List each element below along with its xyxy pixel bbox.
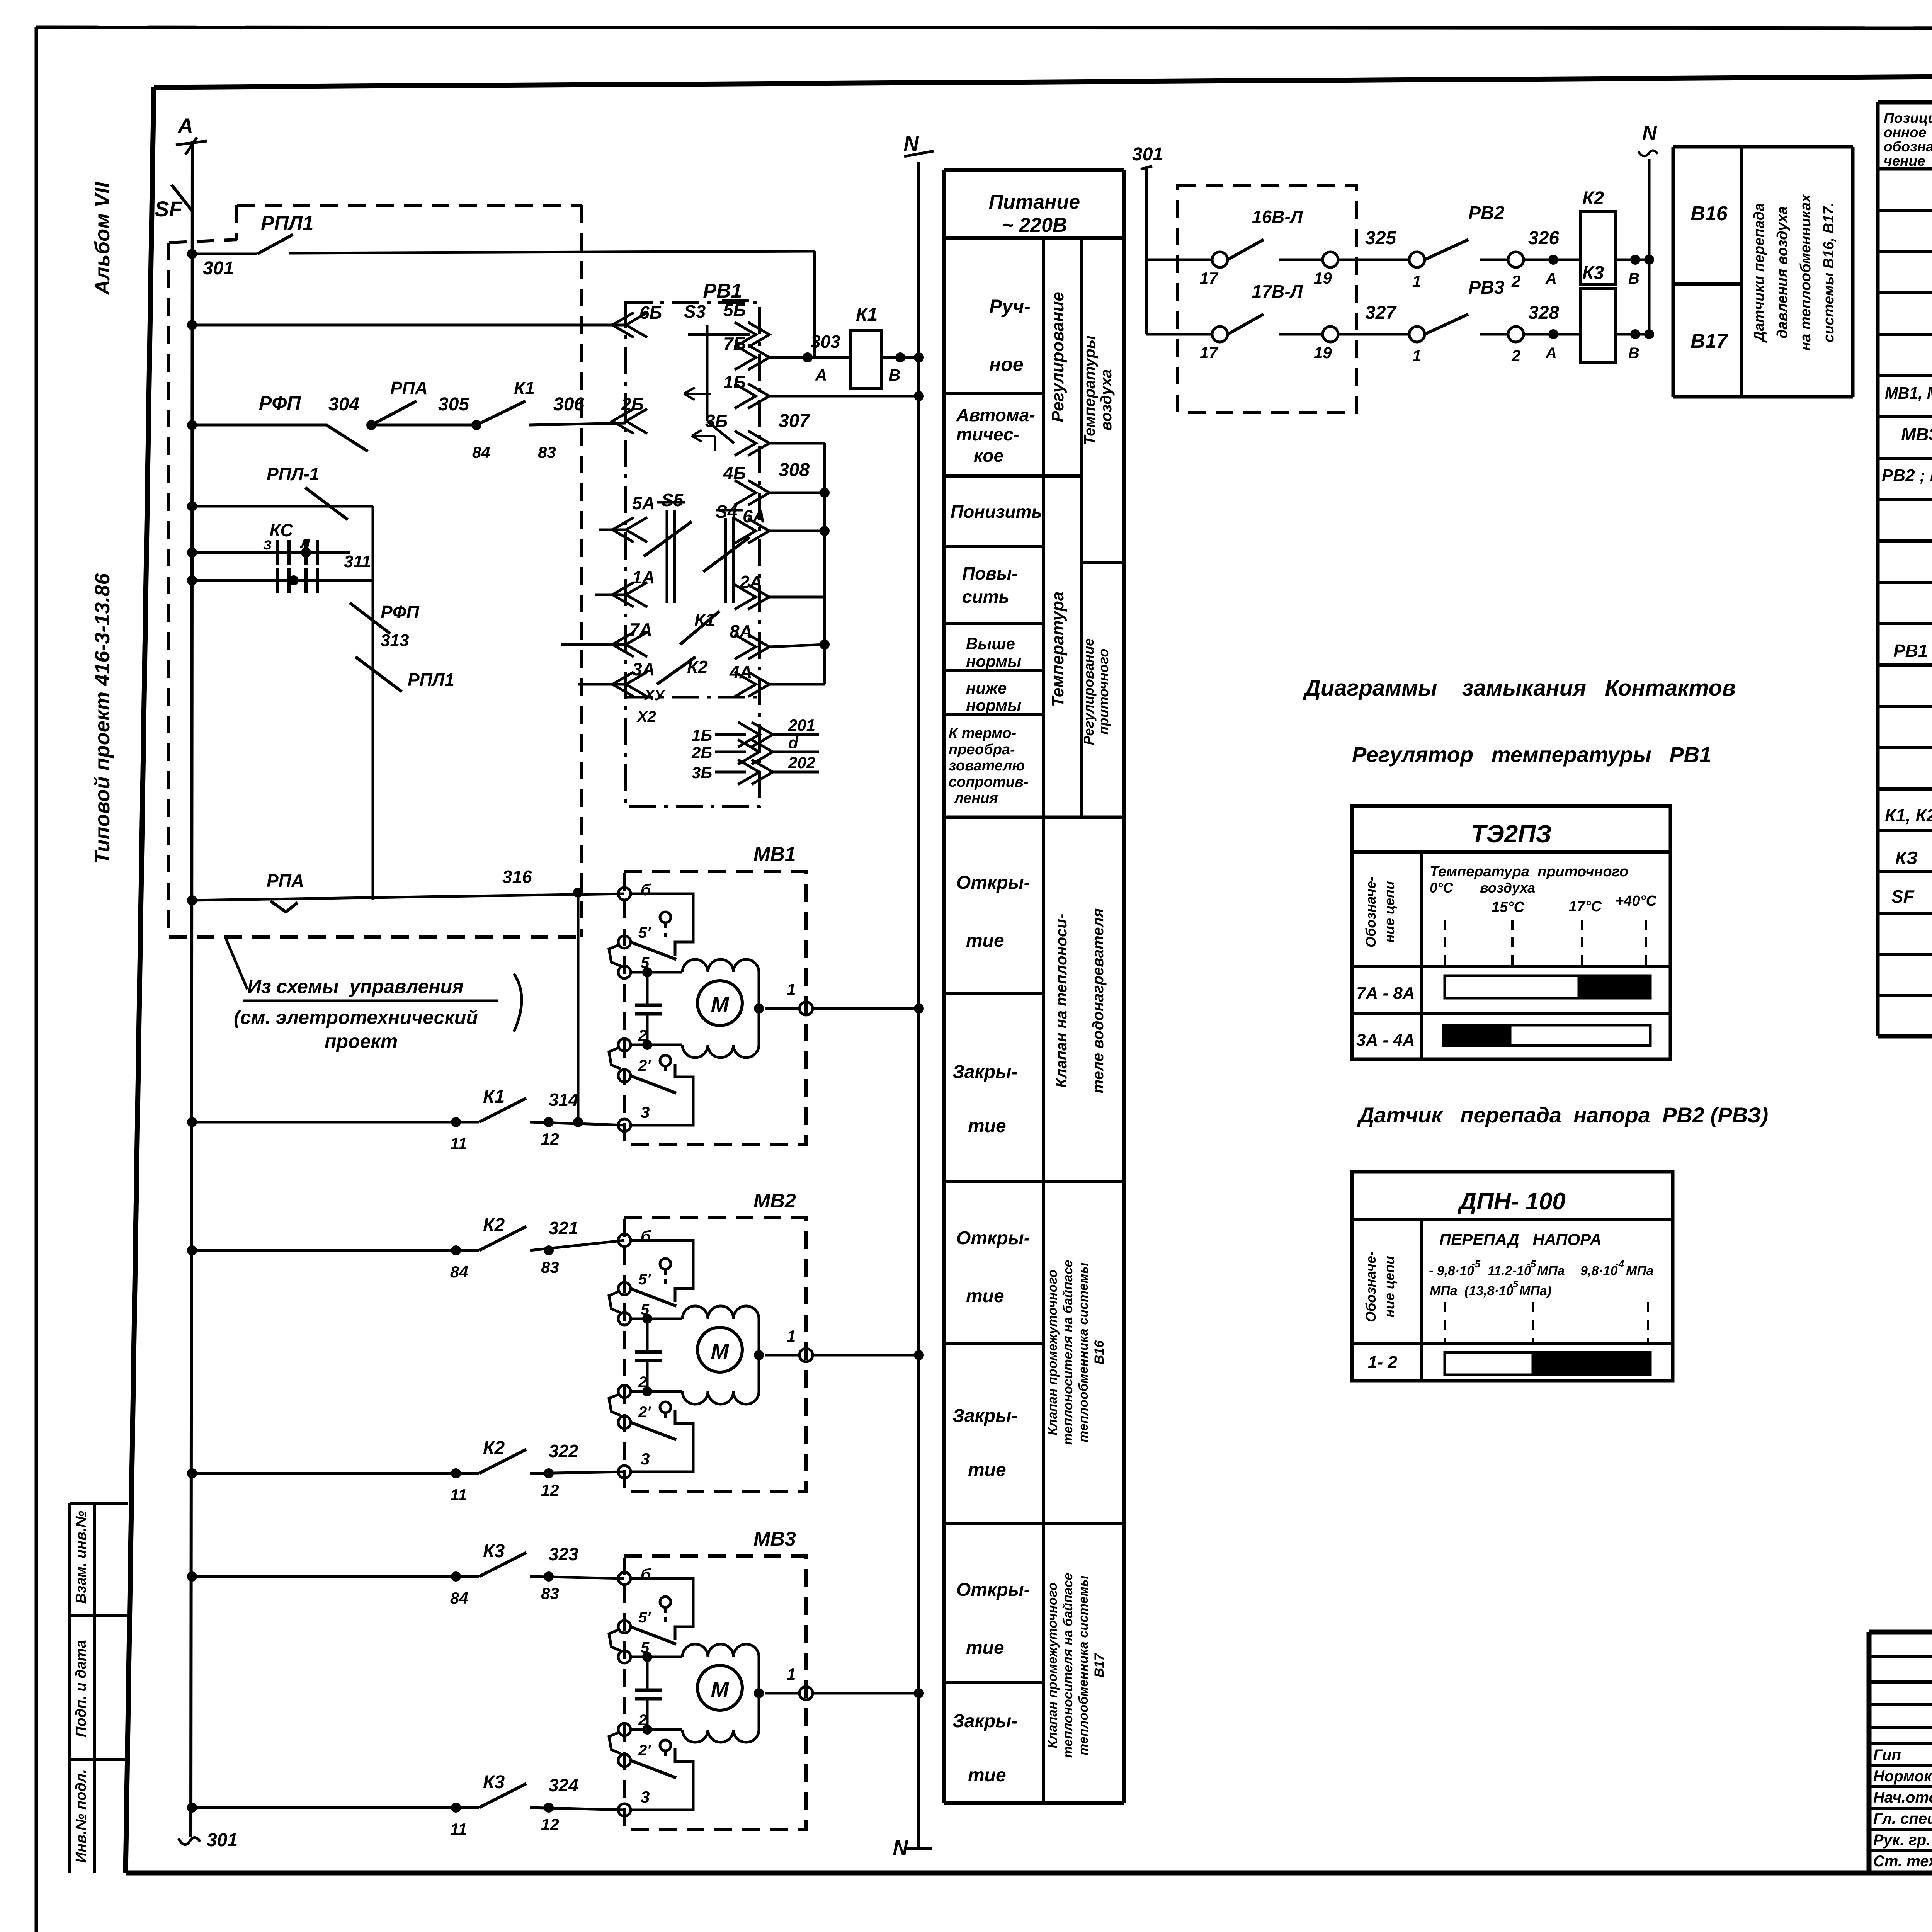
svg-text:322: 322 [549, 1441, 578, 1461]
svg-text:d: d [788, 733, 799, 752]
svg-text:+40°С: +40°С [1615, 893, 1657, 909]
svg-text:А: А [815, 366, 827, 384]
svg-text:- 9,8·10: - 9,8·10 [1429, 1264, 1474, 1278]
svg-text:К1: К1 [694, 610, 715, 630]
svg-text:1: 1 [1412, 272, 1421, 290]
svg-text:327: 327 [1365, 303, 1397, 323]
svg-text:Нормок.: Нормок. [1873, 1768, 1932, 1785]
svg-text:N: N [904, 132, 919, 155]
svg-text:Гип: Гип [1873, 1747, 1901, 1764]
svg-text:Регулятор температуры РВ1: Регулятор температуры РВ1 [1352, 742, 1711, 767]
svg-text:К2: К2 [483, 1215, 505, 1235]
svg-text:К2: К2 [1582, 188, 1604, 209]
svg-text:РФП: РФП [259, 392, 301, 414]
svg-text:1: 1 [787, 1665, 796, 1683]
svg-text:3: 3 [641, 1103, 650, 1121]
svg-text:1Б: 1Б [692, 726, 712, 744]
svg-text:тие: тие [966, 1286, 1004, 1306]
svg-text:83: 83 [538, 443, 556, 461]
svg-text:тие: тие [966, 930, 1004, 951]
svg-text:Инв.№ подл.: Инв.№ подл. [73, 1769, 89, 1863]
svg-text:теплообменника системы: теплообменника системы [1076, 1262, 1091, 1442]
svg-text:1: 1 [1412, 347, 1421, 365]
svg-text:РВ1: РВ1 [1893, 641, 1928, 661]
svg-text:В: В [889, 366, 900, 384]
svg-text:В17: В17 [1690, 330, 1728, 352]
svg-text:тичес-: тичес- [956, 424, 1019, 444]
svg-text:305: 305 [438, 394, 469, 415]
svg-text:Клапан промежуточного: Клапан промежуточного [1045, 1583, 1060, 1748]
svg-text:РПА: РПА [267, 871, 304, 891]
svg-text:(13,8·10: (13,8·10 [1464, 1284, 1514, 1298]
svg-text:314: 314 [549, 1090, 578, 1110]
svg-text:Понизить: Понизить [951, 502, 1042, 522]
svg-text:К3: К3 [483, 1541, 505, 1561]
svg-text:К1: К1 [514, 378, 535, 398]
svg-text:РПЛ1: РПЛ1 [261, 212, 314, 235]
svg-text:16В-Л: 16В-Л [1252, 207, 1303, 227]
svg-text:Взам. инв.№: Взам. инв.№ [73, 1511, 89, 1604]
svg-text:5': 5' [638, 924, 651, 941]
svg-text:В: В [1628, 270, 1639, 287]
svg-text:КЗ: КЗ [1895, 848, 1918, 868]
svg-text:2Б: 2Б [621, 394, 644, 414]
svg-text:-5: -5 [1509, 1278, 1519, 1290]
svg-text:1- 2: 1- 2 [1368, 1353, 1397, 1372]
svg-text:б: б [641, 1565, 651, 1583]
svg-text:нормы: нормы [966, 696, 1021, 714]
svg-text:Ст. техн.: Ст. техн. [1873, 1853, 1932, 1870]
svg-text:А: А [1545, 270, 1557, 287]
svg-text:SF: SF [1891, 886, 1915, 906]
svg-text:МПа: МПа [1430, 1284, 1458, 1298]
svg-text:ниже: ниже [966, 679, 1007, 697]
svg-text:обозна-: обозна- [1884, 139, 1932, 155]
svg-text:зователю: зователю [949, 758, 1025, 774]
svg-text:S3: S3 [684, 301, 706, 321]
svg-text:84: 84 [450, 1263, 468, 1281]
svg-text:303: 303 [811, 332, 840, 352]
svg-text:В16: В16 [1092, 1340, 1107, 1364]
svg-text:A: A [177, 114, 193, 138]
svg-text:К термо-: К термо- [949, 725, 1016, 742]
svg-text:РПЛ1: РПЛ1 [408, 670, 454, 690]
svg-text:2: 2 [1511, 347, 1520, 365]
svg-text:304: 304 [328, 394, 359, 415]
svg-text:83: 83 [541, 1584, 559, 1602]
svg-text:S5: S5 [662, 490, 684, 510]
svg-text:ние цепи: ние цепи [1381, 1256, 1397, 1318]
svg-text:онное: онное [1884, 124, 1926, 140]
svg-text:Типовой проект 416-3-13.86: Типовой проект 416-3-13.86 [91, 573, 114, 864]
svg-text:308: 308 [779, 460, 810, 480]
svg-text:МПа): МПа) [1519, 1284, 1551, 1298]
svg-text:N: N [893, 1836, 908, 1859]
svg-text:Закры-: Закры- [952, 1711, 1017, 1731]
svg-text:Клапан промежуточного: Клапан промежуточного [1045, 1270, 1060, 1435]
svg-text:84: 84 [472, 443, 490, 461]
svg-text:316: 316 [502, 867, 532, 887]
svg-text:Датчики перепада: Датчики перепада [1751, 203, 1767, 343]
svg-text:теплоносителя на байпасе: теплоносителя на байпасе [1061, 1573, 1075, 1758]
svg-text:КС: КС [270, 520, 294, 540]
svg-text:11.2-10: 11.2-10 [1488, 1264, 1531, 1278]
svg-text:К1: К1 [483, 1087, 505, 1107]
svg-text:сить: сить [962, 587, 1009, 607]
svg-text:В: В [1628, 345, 1639, 362]
svg-text:Питание: Питание [989, 191, 1080, 213]
svg-text:ДПН- 100: ДПН- 100 [1457, 1188, 1565, 1215]
svg-text:Температура: Температура [1048, 592, 1067, 707]
svg-text:5': 5' [638, 1271, 651, 1288]
svg-text:2': 2' [638, 1404, 651, 1421]
svg-text:306: 306 [553, 394, 584, 415]
svg-text:Из схемы управления: Из схемы управления [247, 976, 464, 997]
svg-text:SF: SF [155, 197, 183, 221]
svg-text:Обозначе-: Обозначе- [1363, 876, 1379, 947]
svg-text:4Б: 4Б [723, 463, 746, 483]
svg-text:15°С: 15°С [1492, 899, 1524, 915]
svg-text:84: 84 [450, 1589, 468, 1607]
svg-text:3А - 4А: 3А - 4А [1356, 1031, 1415, 1049]
svg-text:-5: -5 [1471, 1258, 1481, 1270]
svg-text:Откры-: Откры- [956, 1580, 1030, 1600]
svg-text:12: 12 [541, 1481, 559, 1499]
svg-text:2': 2' [638, 1742, 651, 1759]
svg-text:(см. элетротехнический: (см. элетротехнический [234, 1007, 478, 1028]
svg-text:Датчик перепада напора РВ2: Датчик перепада напора РВ2 (РВЗ) [1357, 1103, 1768, 1127]
svg-text:К1, К2: К1, К2 [1885, 805, 1932, 825]
svg-text:1: 1 [787, 1327, 796, 1345]
svg-text:тие: тие [968, 1765, 1006, 1786]
svg-text:В17: В17 [1092, 1653, 1107, 1677]
svg-text:К3: К3 [1582, 263, 1604, 283]
svg-text:ТЭ2ПЗ: ТЭ2ПЗ [1471, 820, 1552, 848]
svg-text:12: 12 [541, 1130, 559, 1148]
svg-text:301: 301 [1132, 144, 1163, 165]
svg-text:преобра-: преобра- [949, 742, 1015, 758]
svg-text:Гл. спец.: Гл. спец. [1873, 1810, 1932, 1827]
svg-text:Диаграммы замыкания Конта: Диаграммы замыкания Контактов [1303, 675, 1736, 701]
svg-text:Подп. и дата: Подп. и дата [73, 1640, 89, 1737]
svg-text:чение: чение [1884, 153, 1925, 169]
svg-text:сопротив-: сопротив- [949, 774, 1029, 790]
svg-text:11: 11 [450, 1486, 467, 1504]
svg-text:6Б: 6Б [639, 303, 662, 323]
svg-text:Температуры: Температуры [1081, 335, 1098, 445]
svg-text:83: 83 [541, 1258, 559, 1276]
svg-text:~ 220В: ~ 220В [1002, 214, 1067, 236]
svg-text:11: 11 [450, 1134, 467, 1153]
svg-text:Температура приточного: Температура приточного [1430, 864, 1628, 880]
svg-text:В16: В16 [1690, 202, 1728, 225]
svg-text:-5: -5 [1527, 1258, 1536, 1270]
svg-text:МПа: МПа [1626, 1264, 1654, 1278]
svg-text:5А: 5А [632, 493, 655, 513]
svg-text:РФП: РФП [381, 602, 420, 622]
svg-text:К3: К3 [483, 1772, 505, 1793]
svg-text:N: N [1642, 122, 1657, 145]
svg-text:201: 201 [788, 716, 815, 734]
svg-text:301: 301 [203, 258, 234, 279]
svg-text:З: З [263, 538, 272, 553]
svg-text:2': 2' [638, 1057, 651, 1074]
svg-text:2: 2 [1511, 272, 1520, 290]
svg-text:на теплообменниках: на теплообменниках [1798, 194, 1814, 351]
svg-text:тие: тие [966, 1638, 1004, 1658]
svg-text:Регулирование: Регулирование [1048, 292, 1067, 422]
svg-text:РПЛ-1: РПЛ-1 [267, 464, 319, 484]
svg-text:Закры-: Закры- [952, 1062, 1017, 1082]
svg-text:РВ3: РВ3 [1468, 277, 1505, 298]
svg-text:МВ2: МВ2 [753, 1190, 796, 1212]
svg-text:МВ1, МВ2: МВ1, МВ2 [1885, 384, 1932, 403]
svg-text:326: 326 [1528, 228, 1559, 248]
svg-text:325: 325 [1365, 228, 1396, 248]
svg-text:проект: проект [325, 1031, 398, 1052]
svg-text:ХУ: ХУ [644, 687, 665, 704]
svg-text:кое: кое [974, 446, 1003, 466]
svg-text:19: 19 [1314, 269, 1332, 287]
svg-text:0°С: 0°С [1430, 880, 1453, 896]
svg-text:нормы: нормы [966, 652, 1021, 670]
svg-text:Альбом VII: Альбом VII [91, 182, 114, 296]
svg-text:А: А [1545, 345, 1557, 362]
svg-text:Клапан на теплоноси-: Клапан на теплоноси- [1053, 914, 1070, 1088]
svg-text:Закры-: Закры- [952, 1406, 1017, 1426]
svg-text:б: б [641, 881, 651, 899]
svg-text:2Б: 2Б [691, 743, 712, 762]
svg-text:Обозначе-: Обозначе- [1363, 1251, 1379, 1322]
svg-text:М: М [711, 1339, 730, 1363]
svg-text:311: 311 [344, 552, 371, 571]
svg-text:воздуха: воздуха [1098, 369, 1115, 431]
svg-text:тие: тие [968, 1460, 1006, 1480]
svg-text:МВ1: МВ1 [753, 843, 796, 866]
svg-text:Руч-: Руч- [989, 296, 1031, 317]
svg-text:Рук. гр.: Рук. гр. [1873, 1832, 1930, 1849]
svg-text:РПА: РПА [390, 378, 428, 398]
svg-text:К2: К2 [483, 1438, 505, 1458]
svg-text:324: 324 [549, 1775, 578, 1795]
svg-text:5Б: 5Б [723, 300, 746, 320]
svg-text:307: 307 [779, 411, 810, 431]
svg-text:301: 301 [207, 1830, 238, 1850]
svg-text:теле водонагревателя: теле водонагревателя [1090, 908, 1107, 1094]
svg-text:воздуха: воздуха [1480, 880, 1535, 896]
svg-text:системы В16, В17.: системы В16, В17. [1821, 202, 1837, 342]
svg-text:Выше: Выше [966, 634, 1015, 653]
svg-text:РВ2 ; РВЗ: РВ2 ; РВЗ [1882, 466, 1932, 485]
svg-text:323: 323 [549, 1544, 578, 1564]
svg-text:9,8·10: 9,8·10 [1580, 1264, 1617, 1278]
svg-text:К1: К1 [856, 304, 878, 325]
svg-text:ления: ления [954, 790, 998, 806]
svg-text:теплоносителя на байпасе: теплоносителя на байпасе [1061, 1260, 1075, 1445]
svg-text:Повы-: Повы- [962, 563, 1018, 583]
svg-text:ное: ное [989, 354, 1024, 375]
svg-text:11: 11 [450, 1820, 467, 1838]
svg-text:5': 5' [638, 1609, 651, 1626]
svg-text:313: 313 [381, 631, 409, 650]
svg-text:3А: 3А [632, 659, 655, 679]
svg-text:17°С: 17°С [1569, 898, 1602, 915]
svg-text:М: М [711, 992, 730, 1017]
svg-text:теплообменника системы: теплообменника системы [1076, 1575, 1091, 1755]
svg-text:1Б: 1Б [723, 372, 746, 392]
svg-text:7А - 8А: 7А - 8А [1356, 984, 1415, 1003]
svg-text:17В-Л: 17В-Л [1252, 281, 1303, 301]
svg-text:Нач.отд.: Нач.отд. [1873, 1789, 1932, 1806]
svg-text:давления воздуха: давления воздуха [1774, 206, 1791, 338]
svg-text:1: 1 [787, 980, 796, 998]
svg-text:3: 3 [641, 1450, 650, 1468]
svg-text:12: 12 [541, 1815, 559, 1833]
svg-text:Автома-: Автома- [956, 405, 1035, 425]
svg-text:202: 202 [788, 753, 815, 772]
svg-text:Регулирование: Регулирование [1081, 638, 1097, 745]
svg-text:МВЗ: МВЗ [1901, 424, 1932, 444]
svg-text:7Б: 7Б [723, 333, 746, 354]
svg-text:приточного: приточного [1095, 649, 1111, 735]
svg-text:РВ2: РВ2 [1468, 203, 1505, 223]
svg-text:РВ1: РВ1 [703, 280, 742, 302]
svg-text:17: 17 [1200, 344, 1218, 362]
svg-text:321: 321 [549, 1218, 578, 1238]
svg-text:тие: тие [968, 1116, 1006, 1136]
svg-text:3Б: 3Б [692, 764, 712, 782]
svg-text:Откры-: Откры- [956, 1228, 1030, 1248]
svg-text:ПЕРЕПАД НАПОРА: ПЕРЕПАД НАПОРА [1439, 1230, 1602, 1248]
svg-text:ние цепи: ние цепи [1381, 881, 1397, 943]
svg-text:Позици-: Позици- [1884, 110, 1932, 126]
svg-text:19: 19 [1314, 344, 1332, 362]
svg-text:Откры-: Откры- [956, 872, 1030, 893]
svg-text:328: 328 [1528, 303, 1559, 323]
svg-text:17: 17 [1200, 269, 1218, 287]
svg-text:М: М [711, 1677, 730, 1701]
svg-text:МВ3: МВ3 [753, 1528, 796, 1550]
svg-text:МПа: МПа [1537, 1264, 1565, 1278]
svg-text:3: 3 [641, 1788, 650, 1806]
svg-text:Х2: Х2 [636, 708, 656, 725]
svg-text:-4: -4 [1615, 1258, 1624, 1270]
svg-text:б: б [641, 1227, 651, 1245]
